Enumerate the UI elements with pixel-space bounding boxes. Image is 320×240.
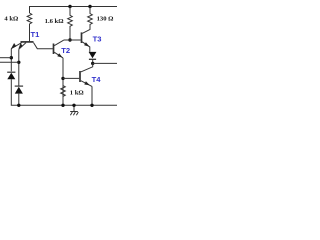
node T2 collector dot <box>68 38 71 41</box>
resistor R3 130ohm top node dot <box>88 5 91 8</box>
wire diode to output node <box>92 59 94 63</box>
ground stub <box>73 105 75 111</box>
node D2 bottom rail dot <box>17 104 20 107</box>
transistor T1 emitter 1 arrowhead <box>11 43 16 49</box>
wire VCC top rail <box>30 7 118 14</box>
wire D2 to bottom rail <box>18 94 20 106</box>
svg-text:T3: T3 <box>93 35 102 44</box>
transistor T4 collector <box>81 63 93 72</box>
diode D1 cathode bar <box>7 71 15 73</box>
transistor T3 emitter <box>82 42 90 52</box>
transistor T3 collector <box>82 26 90 33</box>
wire input B emitter2 column <box>18 49 20 86</box>
svg-text:T2: T2 <box>61 46 70 55</box>
transistor T4 emitter <box>81 81 92 87</box>
node ground dot <box>72 104 75 107</box>
resistor R1 4kohm zigzag <box>27 13 32 42</box>
svg-text:T1: T1 <box>31 30 41 39</box>
wire input A from left edge <box>0 57 11 59</box>
wire output to right edge <box>93 62 117 64</box>
svg-text:4 kΩ: 4 kΩ <box>4 15 18 22</box>
node 1kohm top dot <box>61 77 64 80</box>
transistor T1 emitter 2 <box>19 43 26 50</box>
node T4 emitter bottom rail dot <box>90 104 93 107</box>
node input B dot <box>17 61 20 64</box>
transistor T1 emitter 1 <box>11 43 21 49</box>
transistor T1 emitter 2 arrowhead <box>18 43 22 49</box>
resistor R2 1.6kohm <box>68 7 73 41</box>
node 1kohm bottom rail dot <box>61 104 64 107</box>
resistor R3 130ohm <box>88 7 93 28</box>
diode D3 cathode bar <box>89 58 96 60</box>
transistor T2 emitter <box>54 52 63 58</box>
transistor T4 emitter arrowhead <box>84 81 90 85</box>
transistor T1 base bar <box>21 41 34 43</box>
ground symbol <box>70 112 78 116</box>
wire D1 to bottom rail <box>11 79 117 105</box>
diode D2 cathode bar <box>15 85 23 87</box>
diode D3 triangle <box>89 52 97 58</box>
wire input B from left edge <box>0 61 19 63</box>
svg-text:130 Ω: 130 Ω <box>97 15 114 22</box>
transistor T3 base bar <box>81 32 83 43</box>
svg-text:T4: T4 <box>92 75 102 84</box>
svg-text:1 kΩ: 1 kΩ <box>70 90 84 97</box>
transistor T1 collector <box>34 43 53 49</box>
wire phase splitter collector to T3 base <box>64 39 81 41</box>
resistor R2 1.6kohm top node dot <box>68 5 71 8</box>
wire input A emitter1 column <box>10 49 12 72</box>
transistor T2 emitter arrowhead <box>57 53 62 57</box>
diode D1 triangle <box>7 73 15 79</box>
diode D2 triangle <box>15 87 23 94</box>
transistor T2 base bar <box>53 44 55 55</box>
node input A dot <box>10 56 13 59</box>
wire T2 emitter column <box>62 58 64 105</box>
node output dot <box>91 62 94 65</box>
transistor T4 base bar <box>79 71 81 82</box>
transistor T2 collector <box>54 40 63 46</box>
wire T4 emitter to bottom rail <box>91 86 93 105</box>
resistor R4 1kohm zigzag <box>61 86 66 97</box>
svg-text:1.6 kΩ: 1.6 kΩ <box>45 18 64 25</box>
wire T4 base from 1kohm node <box>63 77 79 79</box>
transistor T3 emitter arrowhead <box>84 42 89 46</box>
